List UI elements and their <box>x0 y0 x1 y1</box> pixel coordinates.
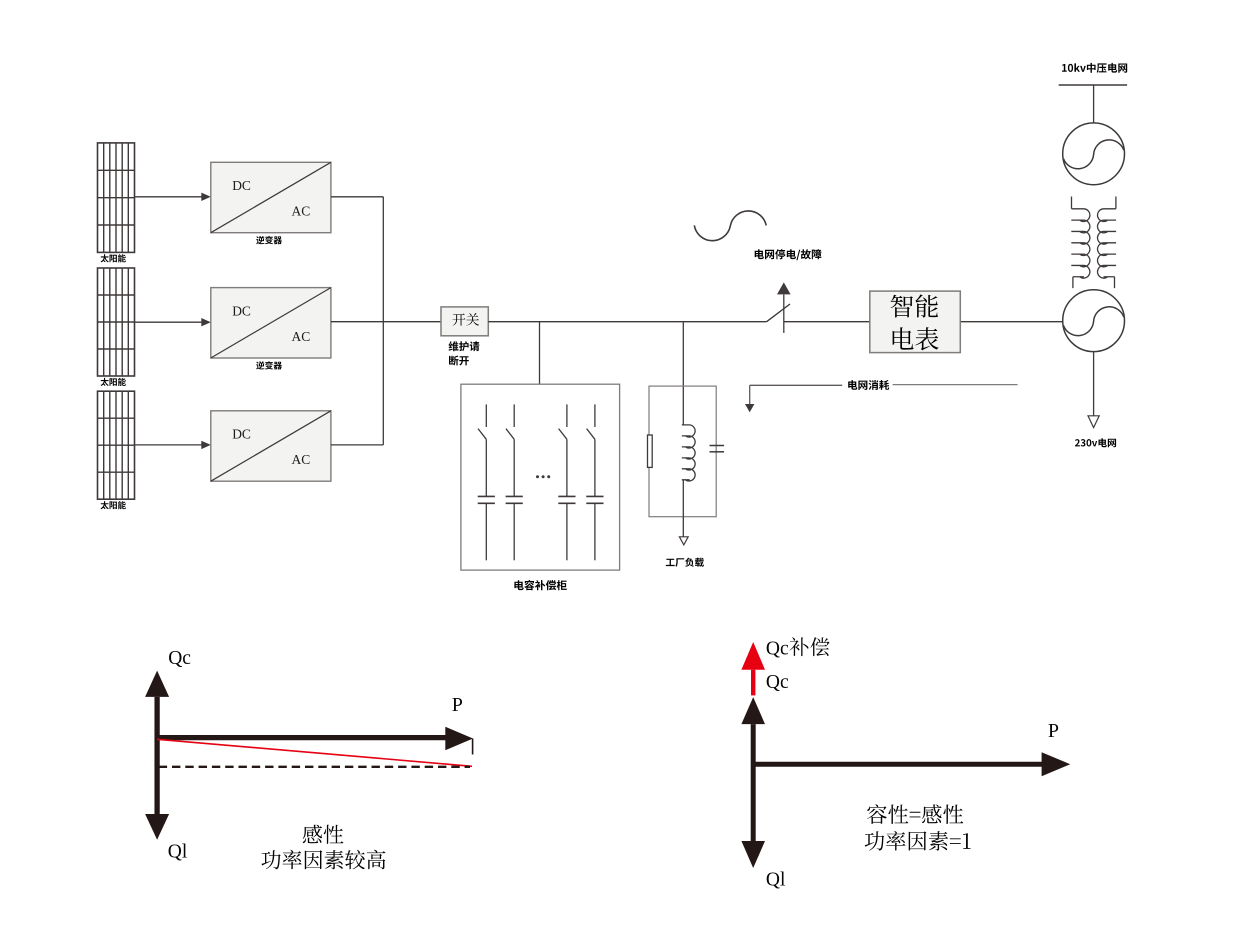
AC source G1 circle <box>1063 123 1125 185</box>
capacitor C3 plates <box>558 496 575 503</box>
callout line 电网消耗 right segment <box>893 384 1018 386</box>
cabinet branch 3: wire to capacitor <box>566 439 568 496</box>
transformer T1 primary winding (left coil) <box>1071 197 1090 289</box>
left chart: Qc axis arrowhead <box>145 671 169 697</box>
label 太阳能 (PV1) <box>101 254 126 262</box>
svg-text:P: P <box>452 694 463 716</box>
wire U3 output to bus <box>331 444 383 446</box>
wire G2 down to 230v arrow <box>1093 352 1095 416</box>
svg-text:AC: AC <box>292 329 311 344</box>
wire inductor to load arrow <box>682 480 684 537</box>
right chart: label 功率因素=1 <box>865 831 971 851</box>
svg-text:P: P <box>1048 720 1059 742</box>
label 电网停电/故障 <box>755 249 822 260</box>
open arrow down (factory load) <box>679 537 688 545</box>
cabinet branch 3: top wire <box>566 404 568 427</box>
label 电容补偿柜 <box>514 580 566 590</box>
left chart: Ql axis arrowhead <box>145 814 169 840</box>
breaker blade (grid disconnect) <box>767 304 790 322</box>
label 太阳能 (PV3) <box>101 501 126 509</box>
arrowhead into U3 <box>201 441 211 449</box>
AC source G2 circle <box>1063 290 1125 352</box>
left chart: P axis <box>157 735 446 740</box>
capacitor C1 plates <box>478 496 495 503</box>
svg-text:Qc: Qc <box>766 672 789 693</box>
cabinet branch 1: wire to capacitor <box>485 439 487 496</box>
svg-text:DC: DC <box>232 304 251 319</box>
solar panel PV3 <box>98 391 135 499</box>
label 230v电网 <box>1075 438 1116 447</box>
right chart: vertical axis <box>751 724 756 841</box>
smart meter M1 box <box>870 291 961 353</box>
capacitor C2 plates <box>506 496 523 503</box>
left chart: end tick <box>472 739 474 755</box>
label 电表 (M1) <box>893 327 939 350</box>
left chart: dashed reactive line <box>159 766 470 768</box>
cabinet branch 3: bottom wire <box>566 503 568 560</box>
arrow down (grid consumption) <box>745 404 754 412</box>
wire: breaker to smart meter <box>784 321 870 323</box>
load inductor L1 <box>682 425 695 481</box>
transformer T1 secondary winding (right coil) <box>1098 197 1117 289</box>
cabinet branch 1: switch blade <box>478 429 486 440</box>
wire: bus drop to capacitor cabinet <box>539 322 541 385</box>
label 维护请断开 line2 <box>449 356 469 366</box>
svg-text:Qc: Qc <box>168 648 191 669</box>
cabinet branch 2: bottom wire <box>513 503 515 560</box>
label 智能 (M1) <box>891 294 938 317</box>
left chart: P axis arrowhead <box>445 727 473 751</box>
svg-text:DC: DC <box>232 427 251 442</box>
inverter U3 (DC/AC) <box>211 411 331 481</box>
svg-text:AC: AC <box>292 204 311 219</box>
cabinet branch 1: top wire <box>485 404 487 427</box>
right chart: P arrowhead <box>1042 752 1071 776</box>
cabinet branch 2: top wire <box>513 404 515 427</box>
load capacitor C5 plates <box>710 446 725 452</box>
right chart: Ql arrowhead <box>741 841 765 868</box>
left chart: label 感性 <box>303 825 344 844</box>
right chart: red Qc compensation stem <box>751 670 755 696</box>
breaker pole (vertical) <box>783 294 785 333</box>
cabinet branch 2: switch blade <box>506 429 514 440</box>
wire bar to AC source G1 <box>1093 85 1095 123</box>
svg-text:AC: AC <box>292 452 311 467</box>
wire PV1 to inverter U1 <box>135 196 202 198</box>
label 10kv中压电网 <box>1062 63 1127 73</box>
wire: bus drop to factory load / inductor top <box>682 322 684 425</box>
inverter U1 (DC/AC) <box>211 162 331 232</box>
wire: main AC bus switch to breaker <box>488 321 766 323</box>
label 维护请断开 line1 <box>449 341 480 351</box>
left chart: red power factor line <box>157 739 472 766</box>
cabinet branch 4: wire to capacitor <box>594 439 596 496</box>
right chart: P axis <box>753 762 1042 767</box>
inverter U2 (DC/AC) <box>211 288 331 358</box>
cabinet branch 4: top wire <box>594 404 596 427</box>
left chart: vertical axis <box>154 697 159 814</box>
cabinet branch 1: bottom wire <box>485 503 487 560</box>
arrow up (fault indicator) <box>777 282 791 294</box>
label 电网消耗 <box>848 380 889 390</box>
net: 10kv bus bar <box>1059 84 1127 86</box>
wire U2 output to switch <box>331 321 441 323</box>
cabinet branch 4: switch blade <box>587 429 595 440</box>
cabinet branch 2: wire to capacitor <box>513 439 515 496</box>
arrowhead into U2 <box>201 318 211 326</box>
sine inside G2 <box>1063 307 1123 336</box>
callout drop wire <box>749 385 751 404</box>
svg-text:Ql: Ql <box>168 841 188 862</box>
load resistor R1 <box>648 435 653 467</box>
factory load enclosure <box>649 386 716 517</box>
sine inside G1 <box>1063 140 1123 169</box>
label 太阳能 (PV2) <box>101 378 126 386</box>
svg-text:DC: DC <box>232 178 251 193</box>
label 逆变器 (U1) <box>256 236 282 244</box>
svg-text:Qc: Qc <box>766 638 789 659</box>
svg-text:Ql: Ql <box>766 870 786 891</box>
wire U1 output to bus <box>331 196 383 198</box>
wire PV3 to inverter U3 <box>135 444 202 446</box>
label 开关 (S1) <box>453 313 480 326</box>
left chart: label 功率因素较高 <box>261 850 385 870</box>
solar panel PV2 <box>98 268 135 376</box>
right chart: label 容性=感性 <box>867 804 963 824</box>
wire: smart meter to grid transformer <box>960 321 1063 323</box>
solar panel PV1 <box>98 143 135 253</box>
label 工厂负载 <box>666 558 704 567</box>
wire PV2 to inverter U2 <box>135 321 202 323</box>
right chart: red Qc compensation arrowhead <box>741 642 765 670</box>
ellipsis (more branches) <box>536 475 550 478</box>
capacitor C4 plates <box>586 496 603 503</box>
label 逆变器 (U2) <box>256 361 282 369</box>
callout line 电网消耗 left segment <box>750 384 843 386</box>
fault sine symbol <box>694 211 766 241</box>
right chart: black Qc arrowhead <box>741 697 765 724</box>
capacitor cabinet enclosure <box>461 384 620 570</box>
open arrow down (230v feed) <box>1088 416 1099 428</box>
cabinet branch 4: bottom wire <box>594 503 596 560</box>
arrowhead into U1 <box>201 193 211 201</box>
switch S1 box 开关 <box>441 307 488 336</box>
node: AC collection bus (vertical) <box>382 197 384 445</box>
cabinet branch 3: switch blade <box>559 429 567 440</box>
